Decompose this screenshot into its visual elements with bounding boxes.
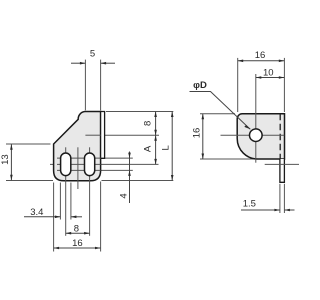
svg-text:8: 8 — [143, 121, 154, 126]
svg-text:8: 8 — [74, 223, 79, 234]
svg-text:1.5: 1.5 — [243, 198, 256, 209]
svg-text:3.4: 3.4 — [30, 207, 43, 218]
svg-text:13: 13 — [0, 154, 11, 165]
svg-text:16: 16 — [255, 50, 266, 61]
svg-text:A: A — [143, 145, 154, 152]
svg-text:φD: φD — [193, 80, 207, 91]
svg-text:10: 10 — [263, 68, 274, 79]
svg-text:16: 16 — [72, 238, 83, 249]
svg-text:16: 16 — [191, 128, 202, 139]
svg-text:L: L — [160, 145, 171, 150]
svg-text:5: 5 — [90, 48, 95, 59]
svg-text:4: 4 — [118, 193, 129, 198]
